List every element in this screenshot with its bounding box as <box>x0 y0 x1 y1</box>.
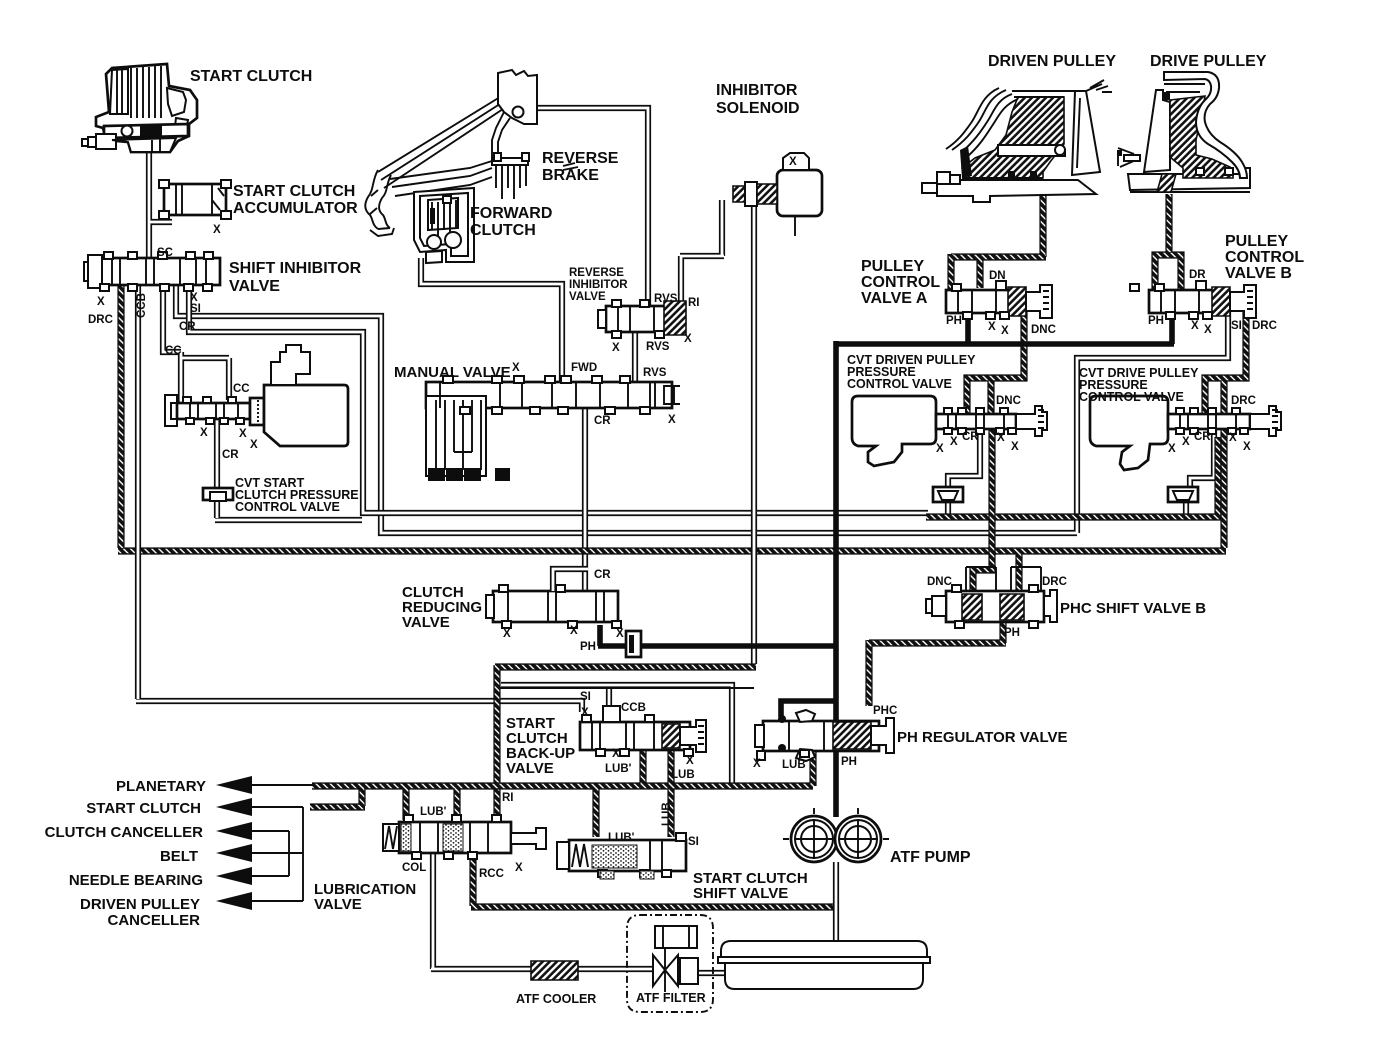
svg-text:ATF COOLER: ATF COOLER <box>516 992 596 1006</box>
svg-text:PHC SHIFT VALVE B: PHC SHIFT VALVE B <box>1060 600 1206 617</box>
label START CLUTCH arrow <box>86 800 201 817</box>
valve start clutch back-up <box>580 706 706 756</box>
svg-text:X: X <box>1011 441 1019 453</box>
svg-text:PH: PH <box>1004 627 1020 639</box>
label X RVS under reverse inhibitor <box>612 333 692 354</box>
svg-text:CONTROL VALVE: CONTROL VALVE <box>235 500 340 514</box>
label CR X X X PH reducing valve <box>503 569 624 653</box>
label PHC <box>873 705 897 717</box>
wire PHC hatched regulator to PHC shift valve B <box>869 622 1006 706</box>
svg-text:DRC: DRC <box>1042 576 1067 588</box>
wire enclosure top edge <box>499 687 754 689</box>
solenoid CVT drive pulley pressure control valve <box>1090 396 1281 470</box>
svg-text:CR: CR <box>222 449 239 461</box>
svg-text:CR: CR <box>1194 431 1211 443</box>
label START CLUTCH BACK-UP VALVE <box>506 715 575 777</box>
svg-text:X: X <box>97 296 105 308</box>
capacitor-like start clutch accumulator <box>159 180 231 236</box>
svg-text:CCB: CCB <box>136 293 148 318</box>
label NEEDLE BEARING <box>69 872 203 889</box>
svg-text:CONTROL: CONTROL <box>1225 249 1304 266</box>
svg-text:INHIBITOR: INHIBITOR <box>716 82 798 99</box>
label X X X CR under CVT start PCV <box>200 427 258 461</box>
label CR X under manual valve <box>594 414 676 427</box>
label INHIBITOR SOLENOID <box>716 82 800 117</box>
svg-text:CR: CR <box>962 431 979 443</box>
svg-text:X: X <box>1182 436 1190 448</box>
svg-text:LUB: LUB <box>661 802 673 826</box>
svg-text:DRC: DRC <box>88 314 113 326</box>
valve CVT start clutch pressure control <box>165 345 348 446</box>
svg-text:RCC: RCC <box>479 868 504 880</box>
svg-text:LUB': LUB' <box>420 806 447 818</box>
label X LUB PH regulator <box>753 756 857 771</box>
svg-text:B: B <box>467 470 475 482</box>
wire DNC chain valve A to PHC shift valve B <box>967 311 1024 592</box>
valve reverse inhibitor <box>598 300 686 338</box>
svg-text:DR: DR <box>1189 269 1206 281</box>
arrow DRIVEN PULLEY CANCELLER <box>216 892 252 910</box>
label LUBRICATION VALVE <box>314 881 416 913</box>
svg-text:MANUAL VALVE: MANUAL VALVE <box>394 364 511 381</box>
label FORWARD CLUTCH <box>470 205 552 239</box>
label X DRC left <box>88 296 113 326</box>
svg-text:X: X <box>1204 324 1212 336</box>
svg-text:X: X <box>503 628 511 640</box>
wire DN driven pulley to pulley control valve A hatched <box>951 180 1046 292</box>
ATF cooler <box>531 961 578 980</box>
svg-text:ATF FILTER: ATF FILTER <box>636 991 706 1005</box>
svg-text:P: P <box>498 470 505 482</box>
wire ATF filter to oil pan <box>676 970 724 976</box>
ATF pump <box>783 808 889 862</box>
oil pan <box>718 941 930 989</box>
arrow START CLUTCH <box>216 798 252 816</box>
svg-text:INHIBITOR: INHIBITOR <box>569 279 628 291</box>
svg-text:DRC: DRC <box>1252 320 1277 332</box>
label START CLUTCH <box>190 68 312 85</box>
valve clutch reducing <box>486 569 621 628</box>
svg-text:X: X <box>1168 443 1176 455</box>
svg-text:X: X <box>668 414 676 426</box>
svg-text:CLUTCH: CLUTCH <box>470 222 536 239</box>
wire COL lubrication valve to ATF cooler <box>431 853 532 969</box>
svg-text:REVERSE: REVERSE <box>569 267 624 279</box>
wire FWD forward clutch to manual valve <box>421 258 562 382</box>
label START CLUTCH ACCUMULATOR <box>233 183 358 217</box>
strainer under driven PCV <box>933 487 963 502</box>
svg-text:X: X <box>686 755 694 767</box>
solenoid CVT driven pulley pressure control valve <box>852 396 1047 466</box>
svg-text:PHC: PHC <box>873 705 897 717</box>
svg-text:NEEDLE BEARING: NEEDLE BEARING <box>69 872 203 889</box>
svg-text:CCB: CCB <box>621 702 646 714</box>
svg-text:RVS: RVS <box>646 341 670 353</box>
label ports drive PCV <box>1168 431 1251 455</box>
svg-text:SOLENOID: SOLENOID <box>716 100 800 117</box>
svg-text:START CLUTCH: START CLUTCH <box>233 183 355 200</box>
svg-text:DN: DN <box>989 270 1006 282</box>
valve shift inhibitor <box>84 252 220 291</box>
svg-text:ACCUMULATOR: ACCUMULATOR <box>233 200 358 217</box>
svg-text:DRIVEN PULLEY: DRIVEN PULLEY <box>988 53 1116 70</box>
label DRIVE PULLEY <box>1150 53 1267 70</box>
svg-text:DRC: DRC <box>1231 395 1256 407</box>
check valve on PH line <box>626 631 641 657</box>
label PH REGULATOR VALVE <box>897 729 1068 746</box>
wire CR bus <box>189 285 928 513</box>
svg-text:X: X <box>612 342 620 354</box>
svg-text:X: X <box>1191 320 1199 332</box>
label CVT DRIVEN PULLEY PRESSURE CONTROL VALVE <box>847 353 976 391</box>
inhibitor solenoid <box>733 153 822 236</box>
ATF filter <box>627 915 713 1012</box>
wire LUB hatched bus <box>310 747 813 837</box>
label X LUB' X LUB backup valve <box>605 748 695 781</box>
svg-text:X: X <box>1001 325 1009 337</box>
svg-text:SI: SI <box>1231 320 1242 332</box>
label CC port <box>233 383 250 395</box>
svg-text:SC: SC <box>157 247 173 259</box>
wire DR drive pulley to pulley control valve B hatched <box>1155 194 1181 292</box>
svg-text:X: X <box>612 748 620 760</box>
svg-text:X: X <box>250 439 258 451</box>
node arrows distribution lines <box>240 785 313 901</box>
label LUB' COL RCC X lubrication valve <box>402 806 523 880</box>
wire RVS reverse inhibitor valve to manual valve <box>632 332 638 382</box>
svg-text:X: X <box>1229 432 1237 444</box>
svg-text:PLANETARY: PLANETARY <box>116 778 206 795</box>
svg-text:LUB: LUB <box>782 759 806 771</box>
wire DRC hatched bus <box>118 283 1246 591</box>
svg-text:CONTROL VALVE: CONTROL VALVE <box>1079 390 1184 404</box>
svg-text:LUB': LUB' <box>605 763 632 775</box>
svg-text:COL: COL <box>402 862 426 874</box>
wire RI hatched into lubrication valve <box>495 665 756 830</box>
transmission forward clutch and reverse brake <box>365 70 578 263</box>
svg-text:RI: RI <box>688 297 700 309</box>
svg-text:VALVE: VALVE <box>569 291 606 303</box>
svg-text:CR: CR <box>594 415 611 427</box>
svg-text:PULLEY: PULLEY <box>861 258 924 275</box>
svg-text:CONTROL VALVE: CONTROL VALVE <box>847 377 952 391</box>
svg-text:X: X <box>684 333 692 345</box>
svg-text:ATF PUMP: ATF PUMP <box>890 849 971 866</box>
svg-text:CR: CR <box>594 569 611 581</box>
svg-text:X: X <box>1243 441 1251 453</box>
wire CC loop <box>163 285 229 403</box>
svg-text:LUB': LUB' <box>608 832 635 844</box>
wire PH main thick line <box>598 311 1174 817</box>
strainer under drive PCV <box>1168 487 1198 502</box>
op valve PHC shift B <box>926 567 1057 628</box>
svg-text:X: X <box>512 362 520 374</box>
wire CR bus right hatched <box>926 437 1218 517</box>
label PHC SHIFT VALVE B <box>1060 600 1206 617</box>
wire CCB shift-inhibitor to back-up valve SI port <box>136 285 582 712</box>
label DRC port lower <box>1231 395 1256 407</box>
wire SI shift-inhibitor to pulley control valve B <box>176 285 1228 533</box>
svg-text:X: X <box>190 292 198 304</box>
svg-text:BRAKE: BRAKE <box>542 167 599 184</box>
wire CR strainer right <box>1186 429 1214 516</box>
wire CR strainer left <box>948 429 980 516</box>
svg-text:RI: RI <box>502 792 514 804</box>
arrow BELT <box>216 844 252 862</box>
svg-text:DRIVEN PULLEY: DRIVEN PULLEY <box>80 896 200 913</box>
label CCB vertical <box>136 293 148 318</box>
svg-text:X: X <box>581 707 589 719</box>
svg-text:X: X <box>988 321 996 333</box>
label PLANETARY <box>116 778 206 795</box>
svg-text:SI: SI <box>580 691 591 703</box>
op valve PH regulator <box>755 710 894 761</box>
wire RI inhibitor solenoid circuit <box>680 200 754 664</box>
check valve orifice on CVT start PCV drain <box>203 488 233 501</box>
svg-text:PH: PH <box>580 641 596 653</box>
arrow NEEDLE BEARING <box>216 867 252 885</box>
svg-text:X: X <box>789 156 797 168</box>
svg-text:RVS': RVS' <box>654 293 680 305</box>
svg-text:X: X <box>239 428 247 440</box>
label RVS' RI <box>654 293 700 309</box>
valve manual <box>426 376 680 482</box>
label ATF PUMP <box>890 849 971 866</box>
svg-text:DNC: DNC <box>1031 324 1056 336</box>
svg-text:X: X <box>616 628 624 640</box>
label PULLEY CONTROL VALVE B <box>1225 233 1304 282</box>
svg-text:X: X <box>753 758 761 770</box>
svg-text:BELT: BELT <box>160 848 198 865</box>
svg-text:SHIFT VALVE: SHIFT VALVE <box>693 885 788 902</box>
label PULLEY CONTROL VALVE A <box>861 258 940 307</box>
label ATF FILTER <box>636 991 706 1005</box>
wire RCC stippled return to pump <box>471 855 836 907</box>
label SHIFT INHIBITOR VALVE <box>229 260 362 295</box>
svg-text:FWD: FWD <box>571 362 597 374</box>
label LUB' LUB SI shift valve <box>608 802 699 848</box>
label DR PH X X SI DRC valve B <box>1148 269 1277 336</box>
svg-text:CANCELLER: CANCELLER <box>108 912 201 929</box>
label SI X CCB backup valve <box>580 691 646 719</box>
label DRIVEN PULLEY CANCELLER <box>80 896 200 929</box>
svg-text:SHIFT INHIBITOR: SHIFT INHIBITOR <box>229 260 362 277</box>
svg-text:VALVE: VALVE <box>229 278 280 295</box>
svg-text:FORWARD: FORWARD <box>470 205 552 222</box>
svg-text:CC: CC <box>165 345 182 357</box>
label X solenoid <box>789 156 797 168</box>
valve lubrication <box>383 815 546 859</box>
svg-text:X: X <box>200 427 208 439</box>
svg-text:CC: CC <box>233 383 250 395</box>
arrow PLANETARY <box>216 776 252 794</box>
svg-text:X: X <box>213 224 221 236</box>
label DRIVEN PULLEY <box>988 53 1116 70</box>
svg-text:DNC: DNC <box>927 576 952 588</box>
svg-text:PULLEY: PULLEY <box>1225 233 1288 250</box>
label CLUTCH REDUCING VALVE <box>402 584 482 631</box>
svg-text:PH REGULATOR VALVE: PH REGULATOR VALVE <box>897 729 1068 746</box>
label ports driven PCV <box>936 431 1019 455</box>
label REVERSE BRAKE <box>542 150 619 184</box>
svg-text:CR: CR <box>179 321 196 333</box>
label CC <box>165 345 182 357</box>
svg-text:DRIVE PULLEY: DRIVE PULLEY <box>1150 53 1267 70</box>
wire ATF cooler to filter <box>577 966 653 972</box>
svg-text:X: X <box>997 432 1005 444</box>
wire CVT start PCV CR line <box>215 419 362 520</box>
label CLUTCH CANCELLER <box>45 824 203 841</box>
svg-text:VALVE: VALVE <box>506 760 554 777</box>
label X FWD above manual valve <box>512 362 597 374</box>
label RI port <box>502 792 514 804</box>
wire RVS reverse brake to reverse inhibitor valve <box>532 108 648 306</box>
arrow CLUTCH CANCELLER <box>216 822 252 840</box>
op valve pulley control A <box>946 281 1052 319</box>
label CR <box>179 321 196 333</box>
wire CR manual valve to clutch reducing valve <box>582 408 588 591</box>
driven pulley <box>922 80 1112 202</box>
wire suction pump to oil pan <box>833 862 839 941</box>
svg-text:START CLUTCH: START CLUTCH <box>86 800 201 817</box>
svg-text:CLUTCH CANCELLER: CLUTCH CANCELLER <box>45 824 203 841</box>
svg-text:D: D <box>431 470 439 482</box>
svg-text:LUB: LUB <box>671 769 695 781</box>
svg-text:START CLUTCH: START CLUTCH <box>190 68 312 85</box>
label DNC port lower <box>996 395 1021 407</box>
label MANUAL VALVE <box>394 364 511 381</box>
svg-text:DNC: DNC <box>996 395 1021 407</box>
label BELT <box>160 848 198 865</box>
wire SC start-clutch to shift inhibitor valve <box>149 152 172 258</box>
label SC <box>157 247 173 259</box>
svg-text:PH: PH <box>1148 315 1164 327</box>
wire back-up valve enclosure and CCB riser <box>501 685 732 786</box>
label CVT DRIVE PULLEY PRESSURE CONTROL VALVE <box>1079 366 1199 404</box>
svg-text:SI: SI <box>190 303 201 315</box>
label DNC DRC PH shift valve B <box>927 576 1067 639</box>
op valve pulley control B <box>1130 281 1256 319</box>
drive pulley <box>1117 72 1250 192</box>
svg-text:VALVE A: VALVE A <box>861 290 928 307</box>
label RVS port <box>643 367 667 379</box>
svg-text:PH: PH <box>946 315 962 327</box>
label ATF COOLER <box>516 992 596 1006</box>
label CVT START CLUTCH PRESSURE CONTROL VALVE <box>235 476 359 514</box>
svg-text:REVERSE: REVERSE <box>542 150 619 167</box>
svg-text:N: N <box>449 470 457 482</box>
svg-text:VALVE: VALVE <box>402 614 450 631</box>
svg-text:X: X <box>570 625 578 637</box>
label SI <box>190 292 201 315</box>
svg-text:X: X <box>936 443 944 455</box>
valve start clutch shift <box>557 833 686 879</box>
svg-text:X: X <box>950 436 958 448</box>
label REVERSE INHIBITOR VALVE <box>569 267 628 303</box>
svg-text:PH: PH <box>841 756 857 768</box>
label DN PH X X DNC valve A <box>946 270 1056 337</box>
svg-text:RVS: RVS <box>643 367 667 379</box>
start clutch SC <box>82 64 197 152</box>
svg-text:VALVE B: VALVE B <box>1225 265 1292 282</box>
label START CLUTCH SHIFT VALVE <box>693 870 808 902</box>
svg-text:X: X <box>515 862 523 874</box>
svg-text:SI: SI <box>688 836 699 848</box>
svg-text:VALVE: VALVE <box>314 896 362 913</box>
svg-text:CONTROL: CONTROL <box>861 274 940 291</box>
